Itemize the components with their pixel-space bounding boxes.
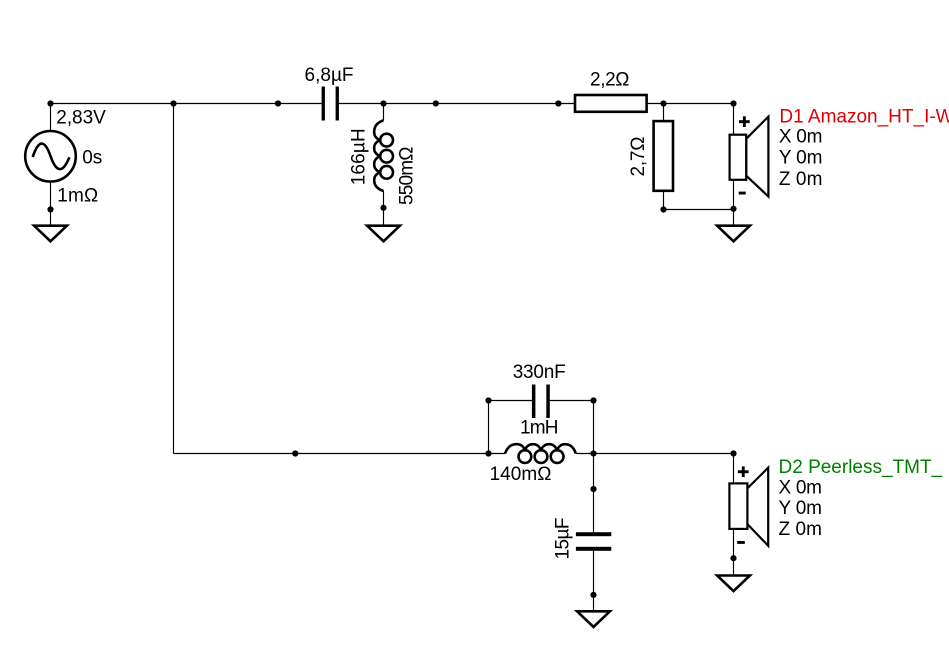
- resistor R2 2,7Ω: [654, 104, 673, 210]
- ground source: [34, 226, 67, 242]
- node R1 left terminal: [555, 100, 561, 106]
- node D2 top: [730, 450, 736, 456]
- svg-text:1mH: 1mH: [520, 417, 559, 438]
- svg-text:2,2Ω: 2,2Ω: [590, 69, 630, 90]
- wire bottom return top section: [664, 209, 734, 211]
- speaker D2: [729, 454, 768, 559]
- node C3 top terminal: [590, 486, 596, 492]
- svg-text:D1 Amazon_HT_I-W: D1 Amazon_HT_I-W: [779, 106, 949, 127]
- svg-text:550mΩ: 550mΩ: [397, 147, 418, 206]
- voltage source V1: [25, 104, 76, 210]
- node D2 bottom: [730, 555, 736, 561]
- node branch junction: [170, 100, 176, 106]
- svg-text:6,8µF: 6,8µF: [305, 65, 354, 86]
- wire D2 to ground: [733, 558, 735, 575]
- svg-text:0s: 0s: [82, 147, 102, 168]
- node mid rail: [433, 100, 439, 106]
- node C2 left: [485, 397, 491, 403]
- svg-text:Y 0m: Y 0m: [779, 498, 823, 519]
- wire source to ground: [50, 210, 52, 226]
- node R2 bottom: [660, 206, 666, 212]
- svg-text:Y 0m: Y 0m: [779, 148, 823, 169]
- wire L1 to ground: [383, 208, 385, 226]
- svg-text:166µH: 166µH: [348, 128, 369, 185]
- ground L1: [367, 226, 400, 242]
- node L2 left junction: [485, 450, 491, 456]
- wire top rail left segment: [51, 103, 322, 105]
- node lower rail: [292, 450, 298, 456]
- capacitor C1 6,8µF: [322, 87, 339, 121]
- node C3 bottom: [590, 592, 596, 598]
- wire lower rail right: [576, 453, 734, 455]
- node R2 top junction: [660, 100, 666, 106]
- svg-text:140mΩ: 140mΩ: [490, 464, 552, 485]
- node L1 top junction: [380, 100, 386, 106]
- svg-text:Z 0m: Z 0m: [779, 169, 823, 190]
- resistor R1 2,2Ω: [575, 95, 647, 112]
- node source bottom: [47, 206, 53, 212]
- speaker D1: [730, 104, 769, 210]
- svg-text:X 0m: X 0m: [779, 127, 823, 148]
- node D1 top: [730, 100, 736, 106]
- svg-text:Z 0m: Z 0m: [779, 519, 823, 540]
- svg-text:15µF: 15µF: [552, 518, 573, 560]
- node source top: [47, 100, 53, 106]
- svg-text:2,83V: 2,83V: [56, 107, 106, 128]
- ground D1: [717, 226, 750, 242]
- svg-text:D2 Peerless_TMT_: D2 Peerless_TMT_: [779, 457, 943, 478]
- svg-text:330nF: 330nF: [513, 362, 566, 383]
- inductor L1 166µH: [374, 104, 393, 208]
- wire branch vertical to lower rail: [173, 104, 175, 454]
- node D1 bottom: [730, 206, 736, 212]
- node C1 left terminal: [275, 100, 281, 106]
- svg-text:X 0m: X 0m: [779, 477, 823, 498]
- wire C3 to ground: [593, 551, 595, 612]
- svg-text:1mΩ: 1mΩ: [57, 186, 98, 207]
- capacitor C2 330nF parallel branch: [489, 385, 594, 454]
- wire D1 to ground: [733, 209, 735, 226]
- wire junction down to C3: [593, 454, 595, 533]
- inductor L2 1mH: [505, 444, 576, 463]
- node L1 bottom: [380, 205, 386, 211]
- capacitor C3 15µF: [576, 532, 611, 551]
- ground C3: [577, 611, 610, 627]
- wire top rail right segment: [647, 103, 734, 105]
- node C2 right: [590, 397, 596, 403]
- node L2 right junction: [590, 450, 596, 456]
- wire top rail middle segment: [339, 103, 575, 105]
- wire lower rail left: [174, 453, 506, 455]
- ground D2: [717, 576, 750, 592]
- svg-text:2,7Ω: 2,7Ω: [628, 137, 649, 177]
